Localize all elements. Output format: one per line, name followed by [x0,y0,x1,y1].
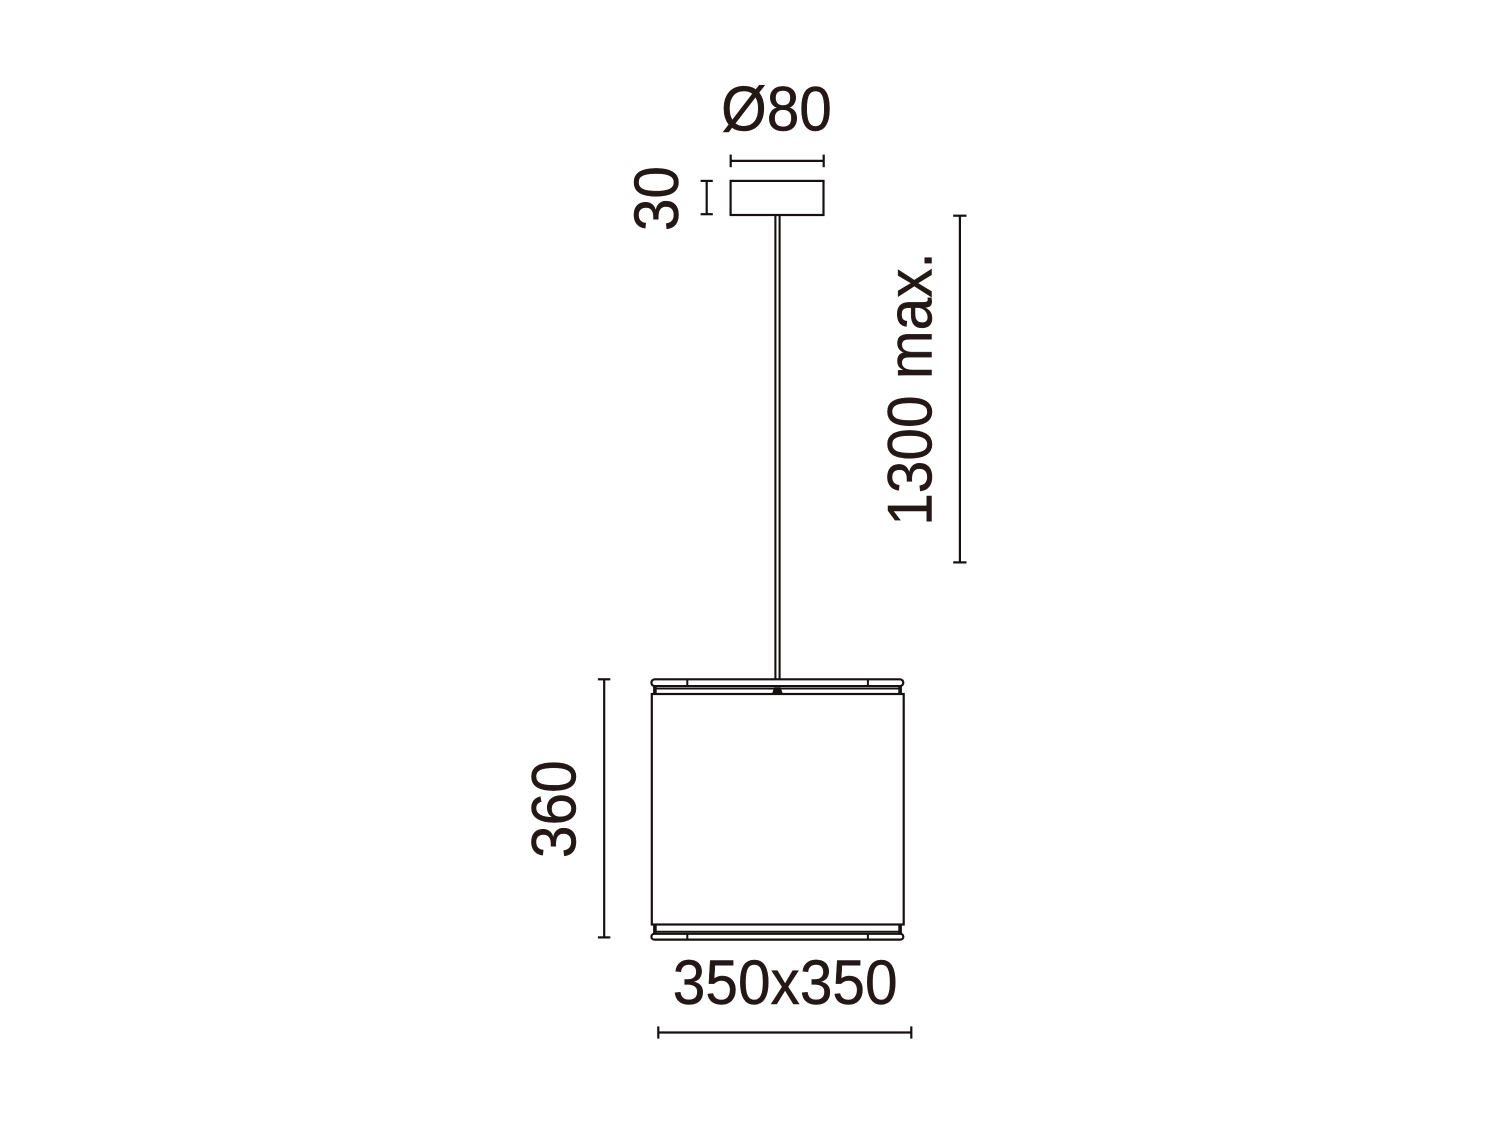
cable strain-relief cone at shade top [772,687,783,694]
suspension cable (double line) [775,214,779,680]
dimension line 360 (vertical with end ticks) [598,679,610,937]
lampshade body [652,694,904,925]
bottom band (rounded) [651,934,903,940]
top band tabs (black) [653,686,657,695]
dimension line Ø80 (horizontal with end ticks) [731,155,824,168]
bottom inner rim line [657,931,899,933]
svg-text:30: 30 [621,166,691,231]
top inner rim line [657,688,899,690]
svg-text:360: 360 [518,760,588,858]
bottom band tabs (black) [653,924,657,933]
svg-text:1300 max.: 1300 max. [874,252,944,526]
top band (rounded) [651,679,903,686]
dimension line 30 (vertical with end ticks) [701,181,713,214]
dimension line 1300 max (vertical with end ticks) [953,216,966,563]
svg-text:350x350: 350x350 [673,947,898,1017]
bottom band dividers [686,934,688,940]
dimension line 350x350 (horizontal with end ticks) [658,1026,911,1038]
top band dividers [686,679,688,686]
svg-text:Ø80: Ø80 [721,74,832,144]
ceiling canopy rectangle [731,181,824,215]
